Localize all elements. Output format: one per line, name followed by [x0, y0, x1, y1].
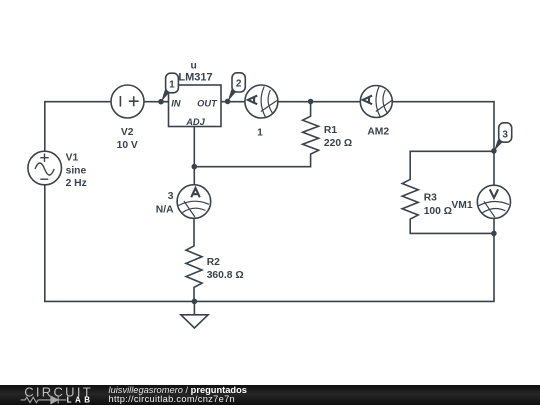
svg-text:100 Ω: 100 Ω: [424, 206, 452, 217]
svg-text:ADJ: ADJ: [185, 117, 205, 127]
svg-text:OUT: OUT: [197, 98, 218, 108]
svg-text:R2: R2: [207, 257, 220, 268]
svg-text:sine: sine: [66, 165, 87, 176]
svg-text:360.8 Ω: 360.8 Ω: [207, 270, 244, 281]
svg-text:AM2: AM2: [367, 127, 389, 138]
svg-text:1: 1: [257, 128, 263, 139]
svg-text:2: 2: [236, 79, 242, 90]
svg-text:2 Hz: 2 Hz: [66, 178, 87, 189]
svg-text:3: 3: [502, 130, 508, 141]
svg-text:LM317: LM317: [178, 71, 212, 83]
svg-text:R3: R3: [424, 192, 437, 203]
svg-text:IN: IN: [171, 98, 181, 108]
svg-text:N/A: N/A: [156, 204, 174, 215]
svg-text:LAB: LAB: [67, 395, 94, 404]
svg-text:R1: R1: [324, 125, 337, 136]
svg-text:VM1: VM1: [451, 200, 472, 211]
svg-text:10 V: 10 V: [117, 140, 138, 151]
svg-text:1: 1: [169, 79, 175, 90]
svg-text:220 Ω: 220 Ω: [324, 138, 352, 149]
svg-text:3: 3: [168, 191, 174, 202]
svg-text:V1: V1: [66, 153, 79, 164]
svg-text:u: u: [191, 61, 197, 72]
svg-text:V2: V2: [121, 127, 134, 138]
